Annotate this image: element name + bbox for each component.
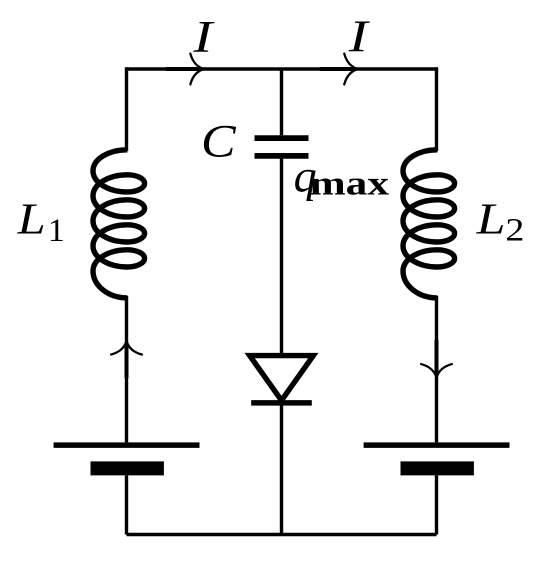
battery B1 positive plate bbox=[54, 442, 200, 448]
wire right vertical lower bbox=[435, 296, 438, 442]
capacitor C bottom plate bbox=[255, 153, 309, 159]
wire middle top to capacitor bbox=[280, 69, 283, 135]
diode D cathode bar bbox=[251, 400, 312, 406]
svg-text:max: max bbox=[310, 166, 389, 203]
wire middle capacitor to diode bbox=[280, 158, 283, 354]
current arrow left wire (upward) head bbox=[111, 341, 142, 354]
battery B2 negative plate bbox=[401, 461, 474, 475]
capacitor C top plate bbox=[255, 135, 309, 141]
battery B1 negative plate bbox=[91, 461, 164, 475]
svg-text:I: I bbox=[192, 12, 215, 62]
wire right battery to bottom bbox=[435, 475, 438, 534]
svg-text:L: L bbox=[16, 194, 45, 244]
inductor L2 coil bbox=[403, 150, 455, 298]
svg-text:2: 2 bbox=[505, 212, 524, 248]
current arrow top-left stem bbox=[166, 67, 202, 71]
svg-text:L: L bbox=[476, 195, 506, 244]
wire right vertical upper bbox=[435, 67, 438, 151]
wire left vertical upper bbox=[125, 67, 128, 151]
svg-text:C: C bbox=[201, 116, 236, 168]
wire middle diode to bottom bbox=[280, 402, 283, 535]
wire left vertical lower bbox=[125, 296, 128, 442]
wire left battery to bottom bbox=[125, 475, 128, 534]
wire bottom horizontal bbox=[127, 533, 437, 536]
current arrow top-right head bbox=[344, 54, 357, 85]
current arrow top-left head bbox=[190, 54, 203, 85]
svg-text:I: I bbox=[348, 12, 371, 62]
wire top horizontal bbox=[127, 67, 437, 70]
current arrow right wire (downward) stem bbox=[435, 340, 439, 376]
current arrow top-right stem bbox=[320, 67, 356, 71]
inductor L1 coil bbox=[93, 150, 145, 298]
current arrow left wire (upward) stem bbox=[125, 343, 129, 379]
battery B2 positive plate bbox=[364, 442, 510, 448]
current arrow right wire (downward) head bbox=[421, 364, 452, 377]
svg-text:1: 1 bbox=[48, 213, 65, 249]
diode D triangle bbox=[250, 356, 314, 401]
